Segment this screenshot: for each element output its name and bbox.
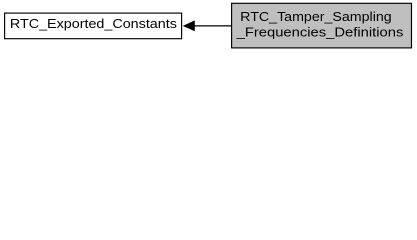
edge wire from grey node to RTC_Exported_Constants <box>193 25 232 27</box>
edge arrowhead <box>184 21 194 30</box>
svg-text:RTC_Tamper_Sampling: RTC_Tamper_Sampling <box>240 9 392 24</box>
node RTC_Exported_Constants box <box>5 13 182 39</box>
svg-text:RTC_Exported_Constants: RTC_Exported_Constants <box>10 16 177 31</box>
group dependency graph <box>0 0 417 52</box>
background <box>0 0 417 52</box>
node RTC_Tamper_Sampling_Frequencies_Definitions box (current group, grey) <box>232 3 412 48</box>
svg-text:_Frequencies_Definitions: _Frequencies_Definitions <box>235 25 403 40</box>
